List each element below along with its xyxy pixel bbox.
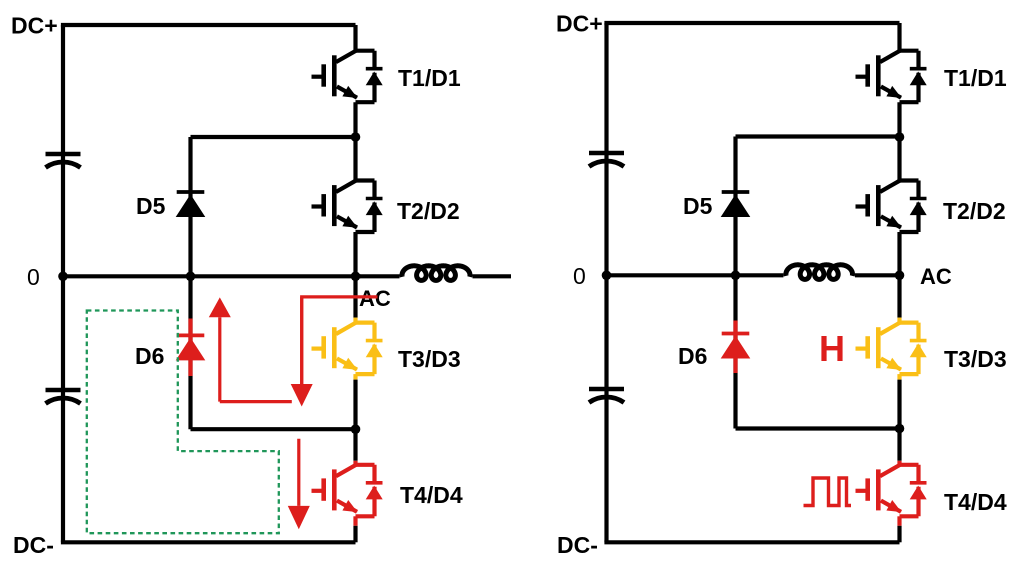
- wire T3-T4 link (right): [897, 380, 901, 461]
- IGBT T2: [312, 181, 383, 233]
- junction clamp-0 (left): [186, 272, 196, 282]
- diode D6 (right): [721, 321, 751, 374]
- IGBT T4 (right,red): [856, 465, 927, 517]
- wire neutral 0 bus b (right): [855, 273, 900, 277]
- inductor (right): [786, 265, 853, 280]
- wire DC+ top bus (left): [61, 23, 356, 27]
- wire AC output a (left): [356, 274, 400, 278]
- wire T3 emitter lead (yellow): [353, 374, 357, 380]
- IGBT T3 (right,yellow): [856, 323, 927, 375]
- red arrow down (mid): [291, 297, 313, 407]
- wire clamp top (right): [736, 134, 900, 138]
- junction T3-T4 node (left): [351, 424, 361, 434]
- capacitor lower (right): [589, 389, 624, 403]
- wire T2-0 link: [353, 232, 357, 318]
- svg-text:DC-: DC-: [557, 532, 598, 558]
- IGBT T3 (yellow): [312, 323, 383, 375]
- svg-text:D6: D6: [135, 343, 164, 369]
- wire T1 collector lead (right): [897, 23, 901, 51]
- wire T1-T2 link (right): [897, 102, 901, 180]
- svg-text:DC+: DC+: [11, 13, 58, 39]
- wire T2-AC link (right): [897, 232, 901, 318]
- IGBT T2 (right): [856, 181, 927, 233]
- svg-text:T3/D3: T3/D3: [944, 346, 1007, 372]
- svg-text:0: 0: [27, 264, 40, 290]
- red arrow up: [209, 297, 231, 401]
- wire neutral 0 bus (left): [63, 274, 361, 278]
- wire D5 branch (left): [188, 137, 192, 276]
- wire DC- bottom bus (right): [604, 540, 899, 544]
- wire right DC rail: [604, 23, 608, 542]
- svg-text:T3/D3: T3/D3: [398, 346, 461, 372]
- wire T1-T2 link: [353, 102, 357, 180]
- wire clamp bottom (right): [736, 426, 900, 430]
- svg-text:0: 0: [573, 263, 586, 289]
- green dashed commutation loop: [87, 311, 279, 534]
- svg-text:DC-: DC-: [13, 532, 54, 558]
- wire T3 collector lead (yellow): [353, 318, 357, 323]
- junction leg-0 (left): [351, 272, 361, 282]
- junction T3-T4 node (right): [895, 424, 905, 434]
- svg-text:D6: D6: [678, 343, 707, 369]
- wire T3 emitter lead (right,yellow): [897, 374, 901, 380]
- wire T4 emitter lead (right,red): [897, 516, 901, 526]
- wire T4-DC- link: [353, 526, 357, 543]
- IGBT T1: [312, 51, 383, 102]
- svg-text:DC+: DC+: [556, 11, 603, 37]
- svg-text:T4/D4: T4/D4: [944, 489, 1007, 515]
- svg-text:T2/D2: T2/D2: [943, 198, 1006, 224]
- junction leg-AC (right): [895, 271, 905, 281]
- wire T1 collector lead: [353, 25, 357, 51]
- junction T1-T2 node: [351, 132, 361, 142]
- wire D6 branch (right): [733, 275, 737, 428]
- IGBT T1 (right): [856, 51, 927, 102]
- red square-wave gate signal: [804, 478, 852, 506]
- wire T4 collector lead (red): [353, 461, 357, 465]
- wire DC- bottom bus (left): [61, 540, 356, 544]
- wire DC+ top bus (right): [604, 21, 899, 25]
- junction rail-0 (right): [602, 271, 612, 281]
- red arrow down (T4): [288, 439, 310, 529]
- wire clamp bottom (left): [191, 427, 356, 431]
- wire D6 branch (left): [188, 276, 192, 429]
- IGBT T4 (red): [312, 465, 383, 517]
- wire D5 branch (right): [733, 137, 737, 276]
- red path AC-down: [302, 297, 378, 384]
- wire T4-DC- link (right): [897, 526, 901, 543]
- junction rail-0 (left): [58, 272, 68, 282]
- svg-text:T4/D4: T4/D4: [400, 482, 463, 508]
- junction T1-T2 node (right): [895, 132, 905, 142]
- svg-text:T2/D2: T2/D2: [397, 198, 460, 224]
- svg-text:T1/D1: T1/D1: [398, 65, 461, 91]
- wire T3-T4 link: [353, 380, 357, 461]
- svg-text:H: H: [819, 328, 845, 369]
- wire clamp top (left): [191, 135, 356, 139]
- diode D5 (left): [176, 192, 206, 217]
- capacitor lower (left): [46, 390, 81, 404]
- svg-text:AC: AC: [920, 264, 952, 289]
- wire T4 collector lead (right,red): [897, 461, 901, 465]
- diode D5 (right): [721, 192, 751, 217]
- wire T3 collector lead (right,yellow): [897, 318, 901, 323]
- svg-text:D5: D5: [136, 193, 166, 219]
- svg-text:D5: D5: [683, 193, 713, 219]
- svg-text:T1/D1: T1/D1: [944, 65, 1007, 91]
- wire AC output b (left): [473, 274, 512, 278]
- wire neutral 0 bus a (right): [607, 273, 784, 277]
- capacitor upper (left): [46, 154, 81, 168]
- capacitor upper (right): [589, 153, 624, 167]
- red path bottom horizontal: [220, 400, 292, 403]
- wire left DC rail: [61, 25, 65, 542]
- inductor (left): [402, 266, 470, 281]
- wire T4 emitter lead (red): [353, 516, 357, 526]
- junction clamp-0 (right): [731, 271, 741, 281]
- diode D6 (left): [176, 319, 206, 377]
